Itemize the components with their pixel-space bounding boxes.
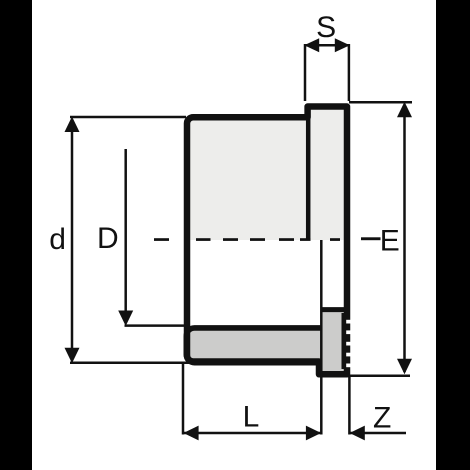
D dimension line (124, 149, 127, 322)
S right extension line (348, 44, 351, 101)
L arrow left (183, 426, 198, 441)
svg-text:Z: Z (373, 402, 391, 435)
S arrow left (304, 38, 319, 52)
d arrow down (65, 348, 80, 364)
gripper insert fill (dark gray in flange bottom) (322, 308, 346, 375)
dimension d: vertical line with arrows (70, 117, 189, 363)
E dimension line (403, 105, 406, 372)
E bottom extension line (347, 375, 410, 378)
d top extension line (70, 116, 186, 119)
dimension L: horizontal at bottom (183, 240, 321, 435)
Z arrow left pointing (350, 426, 365, 441)
E arrow up (397, 102, 412, 118)
socket wall bar (dark gray, lower section) (186, 328, 321, 363)
serration notch 2 (346, 330, 351, 334)
main outline: body + flange silhouette (187, 107, 347, 375)
serration notch 5 (346, 364, 351, 368)
socket wall bar outline (186, 328, 321, 363)
D bottom extension line (125, 324, 186, 327)
svg-text:D: D (97, 222, 119, 255)
d bottom extension line (70, 362, 189, 365)
svg-text:S: S (316, 11, 336, 44)
flange fill light gray (upper half) (305, 104, 349, 240)
bore shoulder line (inner socket end, upper half) (306, 112, 311, 240)
d dimension line (71, 120, 74, 360)
S left extension line (304, 44, 307, 101)
svg-text:d: d (49, 223, 66, 256)
dimension S: horizontal at top (305, 44, 350, 101)
extension line at socket step (320, 240, 323, 435)
serration notch 3 (346, 342, 351, 346)
E arrow down (397, 359, 412, 375)
body fill light gray (upper half silhouette) (185, 115, 310, 241)
dashed centerline (154, 237, 381, 241)
svg-text:L: L (243, 400, 260, 433)
serrated zone thickening on flange right edge (342, 313, 347, 369)
dimension D: vertical line with down arrow (125, 149, 186, 326)
S dimension line (305, 44, 350, 47)
L arrow right (also Z outside arrow) (306, 426, 321, 441)
right black pillar bar (436, 0, 470, 470)
extension line at flange right (348, 375, 351, 435)
dimension E: vertical at right (347, 102, 412, 376)
d arrow up (65, 117, 80, 133)
L dimension line (183, 432, 321, 435)
Z tail line (350, 432, 407, 435)
E top extension line (349, 101, 412, 104)
left black pillar bar (0, 0, 32, 470)
L left extension line (182, 363, 185, 435)
svg-text:E: E (380, 225, 400, 258)
dimension Z: outside arrow at bottom right (349, 375, 406, 435)
serration notch 4 (346, 353, 351, 357)
serration notch 1 (346, 320, 351, 324)
gripper insert top edge (322, 307, 346, 312)
S arrow right (335, 38, 350, 52)
D arrow down (118, 311, 133, 327)
